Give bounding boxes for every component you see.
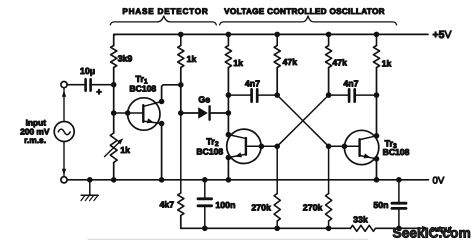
label Ge: [198, 95, 210, 105]
label 1k Tr1 load: [187, 54, 197, 64]
wire Tr1 collector up: [162, 85, 181, 102]
svg-text:1k: 1k: [382, 59, 392, 69]
node 270k-1 output junction: [274, 226, 280, 232]
label Input 200 mV r.m.s.: [20, 117, 50, 145]
label Tr3: [385, 138, 398, 150]
source V1 AC input: [54, 122, 74, 142]
label Tr2: [206, 136, 219, 148]
label 1k Tr2 load: [233, 58, 243, 68]
label BC108 Tr3: [383, 147, 410, 157]
svg-text:3k9: 3k9: [118, 54, 133, 64]
label 100n: [215, 200, 235, 210]
label 1k pot: [120, 145, 130, 155]
wire Tr2 emitter to 0V: [226, 158, 232, 183]
svg-text:4k7: 4k7: [159, 200, 174, 210]
label 1k Tr3 load: [382, 59, 392, 69]
label 47k left: [283, 57, 298, 67]
wire pot to 0V rail: [111, 163, 117, 183]
node 100n output junction: [202, 226, 208, 232]
svg-text:47k: 47k: [332, 58, 347, 68]
wire output line left: [181, 227, 351, 229]
label 4n7 left: [245, 78, 260, 88]
svg-text:4n7: 4n7: [245, 78, 260, 88]
svg-text:+5V: +5V: [433, 29, 452, 41]
label VOLTAGE CONTROLLED OSCILLATOR: [224, 7, 385, 16]
resistor 1k Tr3 load: [373, 34, 379, 67]
label +5V: [433, 29, 452, 41]
transistor Tr2: [226, 129, 278, 163]
label PHASE DETECTOR: [122, 7, 208, 16]
label output: [431, 224, 453, 233]
label Tr1: [135, 74, 148, 86]
svg-text:BC108: BC108: [196, 147, 223, 157]
node ground junction: [87, 177, 93, 183]
label + polarity: [96, 87, 102, 98]
wire collector node to diode: [178, 85, 184, 116]
label 47k right: [332, 58, 347, 68]
svg-text:10µ: 10µ: [80, 66, 95, 76]
node Tr2 base junction: [274, 144, 280, 150]
label 270k left: [251, 203, 271, 213]
label 50n: [373, 200, 388, 210]
svg-text:VOLTAGE CONTROLLED OSCILLATOR: VOLTAGE CONTROLLED OSCILLATOR: [224, 7, 385, 16]
svg-text:270k: 270k: [303, 203, 323, 213]
brace phase detector section: [110, 16, 216, 25]
svg-text:+: +: [96, 87, 102, 98]
label BC108 Tr2: [196, 147, 223, 157]
svg-text:270k: 270k: [251, 203, 271, 213]
label 270k right: [303, 203, 323, 213]
svg-text:BC108: BC108: [383, 147, 410, 157]
potentiometer 1k: [105, 133, 124, 163]
resistor 33k: [351, 225, 376, 231]
node Tr3 base junction: [326, 144, 332, 150]
resistor 1k Tr2 load: [225, 34, 231, 67]
wire +5V rail: [114, 33, 428, 35]
watermark SeekIC.com: [393, 226, 471, 241]
wire diode node to Tr2 collector: [226, 113, 232, 137]
capacitor 4n7 left: [228, 89, 277, 101]
capacitor 100n: [198, 177, 212, 228]
wire 47k-2 to node: [326, 68, 332, 98]
wire 0V rail: [67, 179, 428, 181]
wire base node to pot: [113, 113, 115, 133]
wire 1k to 4n7 node: [226, 68, 232, 98]
capacitor C1 10u: [86, 79, 114, 90]
output arrow: [422, 226, 428, 231]
resistor 47k right: [326, 34, 332, 67]
svg-text:SeekIC.com: SeekIC.com: [393, 226, 471, 241]
svg-text:1k: 1k: [233, 58, 243, 68]
wire 3k9 to base node: [113, 68, 115, 114]
label 4n7 right: [343, 78, 358, 88]
input terminal bottom: [61, 177, 67, 183]
wire Tr2 base node down to 270k: [276, 146, 278, 193]
wire 4n7 node to Tr3 collector: [374, 95, 380, 139]
node Tr1 base junction: [111, 110, 117, 116]
brace voltage controlled oscillator section: [220, 16, 397, 25]
svg-text:BC108: BC108: [129, 84, 156, 94]
wire input line upper with arrow: [62, 88, 66, 122]
wire 4k7 to output line: [181, 216, 183, 229]
label 10u: [80, 66, 95, 76]
input terminal top: [61, 82, 67, 88]
svg-text:4n7: 4n7: [343, 78, 358, 88]
diode D1 Ge: [181, 106, 231, 119]
label 0V: [433, 175, 445, 186]
wire 270k-1 to output line: [276, 221, 278, 228]
transistor Tr1: [114, 98, 165, 130]
wire output line right: [376, 226, 424, 232]
svg-text:50n: 50n: [373, 200, 388, 210]
label 4k7: [159, 200, 174, 210]
resistor 3k9: [111, 46, 117, 68]
capacitor 4n7 right: [329, 89, 377, 101]
node capacitor junction: [111, 82, 117, 88]
wire 1k to 4n7 node right: [374, 68, 380, 98]
svg-text:1k: 1k: [120, 145, 130, 155]
wire 4n7 node to diode node: [227, 95, 229, 113]
resistor 270k left: [274, 194, 280, 222]
node 270k-2 output junction: [326, 226, 332, 232]
scan artifact line: [88, 238, 368, 240]
transistor Tr3: [329, 130, 380, 164]
svg-text:0V: 0V: [433, 175, 445, 186]
label 33k: [353, 215, 368, 225]
wire input to 10u: [67, 84, 84, 86]
wire 1k to collector node: [178, 68, 184, 88]
resistor 270k right: [326, 194, 332, 222]
wire cross-couple diagonal A: [277, 95, 328, 146]
svg-text:1k: 1k: [187, 54, 197, 64]
svg-text:Ge: Ge: [198, 95, 210, 105]
ground: [81, 180, 98, 201]
svg-text:100n: 100n: [215, 200, 235, 210]
wire cross-couple diagonal B: [277, 95, 328, 146]
svg-text:r.m.s.: r.m.s.: [24, 135, 46, 145]
svg-text:47k: 47k: [283, 57, 298, 67]
capacitor 50n: [392, 177, 406, 228]
resistor 1k Tr1 load: [178, 34, 184, 67]
wire input line lower with arrow: [62, 142, 66, 177]
label 3k9: [118, 54, 133, 64]
node +5V rail junction dots: [178, 32, 379, 38]
wire Tr1 emitter down: [159, 124, 165, 183]
wire rail corner to 3k9: [114, 34, 116, 45]
label BC108 Tr1: [129, 84, 156, 94]
wire 47k-1 to node: [274, 68, 280, 98]
wire diode anode down to 4k7: [180, 113, 182, 193]
resistor 47k left: [274, 34, 280, 67]
svg-text:PHASE DETECTOR: PHASE DETECTOR: [122, 7, 208, 16]
wire Tr3 emitter to 0V: [374, 159, 380, 183]
wire 270k-2 to output line: [328, 221, 330, 228]
wire Tr3 base node down to 270k: [328, 146, 330, 193]
resistor 4k7: [178, 193, 184, 216]
svg-text:33k: 33k: [353, 215, 368, 225]
